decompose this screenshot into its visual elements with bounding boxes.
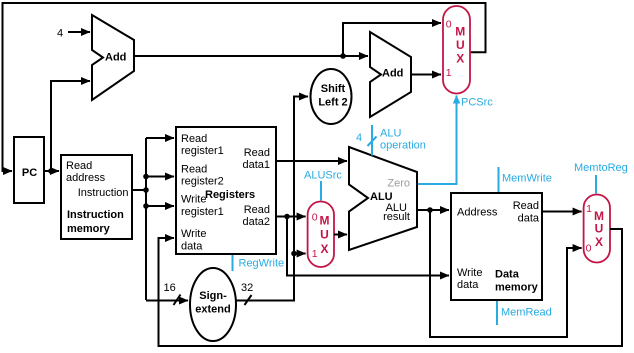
- svg-text:data: data: [457, 279, 479, 291]
- svg-text:Add: Add: [382, 68, 403, 80]
- node: instruction junction main: [143, 187, 149, 193]
- wire: PC+4 to PCSrc mux input 0: [343, 23, 441, 56]
- svg-text:data1: data1: [242, 159, 270, 171]
- wire: Add2 output to PCSrc mux input 1: [411, 74, 441, 76]
- wire: PC+4 from Add1 to Add2: [134, 55, 368, 57]
- wire: sign extend output to shift left 2 and mux: [236, 97, 308, 301]
- svg-text:Read: Read: [244, 204, 270, 216]
- wire: PC to Add1 lower input: [51, 81, 90, 171]
- svg-text:Zero: Zero: [387, 178, 410, 190]
- svg-text:extend: extend: [195, 304, 230, 316]
- node: PC output junction: [48, 168, 54, 174]
- svg-text:address: address: [66, 172, 106, 184]
- svg-text:data2: data2: [242, 216, 270, 228]
- wire: sign extend to ALUSrc mux input 1: [294, 253, 306, 255]
- mux ALUSrc: [308, 202, 334, 268]
- svg-text:data: data: [518, 213, 540, 225]
- mux MemtoReg: [584, 195, 610, 263]
- shift left 2 unit: [311, 69, 352, 124]
- wire: instruction to sign extend: [146, 300, 188, 302]
- svg-text:X: X: [456, 52, 464, 66]
- instruction memory: [61, 155, 132, 239]
- node: instruction junction read reg2: [143, 174, 149, 180]
- control signal MemRead: [497, 301, 552, 325]
- svg-text:Write: Write: [181, 228, 206, 240]
- svg-text:4: 4: [356, 132, 362, 144]
- node: sign extend branch junction: [291, 251, 297, 257]
- node: read data2 junction: [284, 214, 290, 220]
- svg-text:Read: Read: [181, 133, 207, 145]
- svg-text:X: X: [595, 235, 603, 249]
- svg-text:X: X: [320, 242, 328, 256]
- wire: instruction to read register2: [146, 176, 174, 178]
- svg-text:Left 2: Left 2: [318, 97, 347, 109]
- control signal ALU operation: [356, 125, 426, 156]
- svg-text:register2: register2: [181, 176, 224, 188]
- svg-text:U: U: [456, 38, 465, 52]
- wire: read data2 to data memory write data: [287, 217, 449, 276]
- svg-text:M: M: [320, 214, 330, 228]
- wire: instruction memory output to junction: [132, 189, 146, 191]
- svg-text:Read: Read: [181, 164, 207, 176]
- PC register: [14, 137, 44, 203]
- svg-text:Instruction: Instruction: [78, 187, 129, 199]
- svg-text:0: 0: [586, 242, 592, 254]
- control signal MemWrite: [499, 167, 552, 192]
- svg-text:16: 16: [164, 282, 176, 294]
- control signal PCSrc (Zero to mux): [417, 96, 493, 185]
- svg-text:4: 4: [57, 28, 63, 40]
- svg-text:M: M: [455, 25, 465, 39]
- wire: constant 4 into Add1: [68, 31, 90, 33]
- wire: ALU result wrap to MemtoReg mux input 0: [430, 210, 582, 337]
- svg-text:memory: memory: [67, 223, 111, 235]
- svg-text:U: U: [595, 222, 604, 236]
- svg-text:Read: Read: [513, 200, 539, 212]
- wire: ALUSrc mux output to ALU: [334, 234, 347, 236]
- svg-text:Address: Address: [457, 207, 498, 219]
- data memory: [451, 193, 542, 300]
- control signal MemtoReg: [574, 162, 628, 194]
- node: instruction junction write reg: [143, 203, 149, 209]
- wire: PCSrc mux output wrap to PC input: [3, 3, 486, 171]
- wire: read data2 to ALUSrc mux input 0: [276, 216, 306, 218]
- svg-text:Add: Add: [105, 52, 126, 64]
- svg-text:1: 1: [586, 203, 592, 215]
- registers file: [176, 127, 276, 254]
- svg-text:MemtoReg: MemtoReg: [574, 162, 628, 174]
- svg-text:register1: register1: [181, 145, 224, 157]
- svg-text:Sign-: Sign-: [199, 290, 227, 302]
- control signal ALUSrc: [304, 170, 342, 201]
- svg-text:memory: memory: [495, 282, 539, 294]
- svg-text:Read: Read: [66, 160, 92, 172]
- mux PCSrc (top right): [443, 6, 470, 94]
- wire: instruction to read register1: [146, 137, 174, 139]
- svg-text:PCSrc: PCSrc: [461, 97, 493, 109]
- wire: ALU result to data memory address: [417, 209, 449, 211]
- svg-text:PC: PC: [22, 167, 37, 179]
- adder Add1 (PC+4): [92, 15, 134, 100]
- wire: data memory read data to MemtoReg mux input 1: [542, 211, 582, 213]
- node: ALU result junction: [427, 207, 433, 213]
- svg-text:0: 0: [312, 211, 318, 223]
- svg-text:MemRead: MemRead: [501, 307, 552, 319]
- svg-text:1: 1: [312, 248, 318, 260]
- svg-text:operation: operation: [380, 140, 426, 152]
- adder Add2 (branch target): [370, 32, 411, 117]
- bus width 16 label and slash: [164, 282, 181, 305]
- svg-text:0: 0: [446, 19, 452, 31]
- sign extend unit: [190, 268, 236, 341]
- bus width 32 label and slash: [241, 282, 253, 305]
- svg-text:Read: Read: [244, 147, 270, 159]
- svg-text:data: data: [181, 241, 203, 253]
- wire: instruction bus vertical: [145, 138, 147, 300]
- svg-text:RegWrite: RegWrite: [239, 258, 285, 270]
- wire: read data1 to ALU: [276, 160, 347, 162]
- svg-text:Shift: Shift: [321, 83, 346, 95]
- control signal RegWrite: [233, 255, 285, 271]
- node: PC+4 junction: [340, 53, 346, 59]
- svg-text:ALU: ALU: [380, 128, 401, 140]
- svg-text:Write: Write: [181, 194, 206, 206]
- svg-text:MemWrite: MemWrite: [502, 173, 552, 185]
- wire: PC output to instruction memory: [44, 170, 59, 172]
- svg-text:ALUSrc: ALUSrc: [304, 170, 342, 182]
- svg-text:Write: Write: [457, 267, 482, 279]
- wire: instruction to write register: [146, 205, 174, 207]
- svg-text:register1: register1: [181, 206, 224, 218]
- svg-text:1: 1: [446, 67, 452, 79]
- ALU main: [349, 147, 417, 250]
- svg-text:result: result: [383, 211, 410, 223]
- svg-text:Data: Data: [495, 269, 520, 281]
- svg-text:Registers: Registers: [205, 189, 255, 201]
- wire: MemtoReg mux output wrap to registers write data: [159, 229, 623, 346]
- svg-text:32: 32: [241, 282, 253, 294]
- svg-text:Instruction: Instruction: [67, 209, 124, 221]
- svg-text:U: U: [320, 227, 329, 241]
